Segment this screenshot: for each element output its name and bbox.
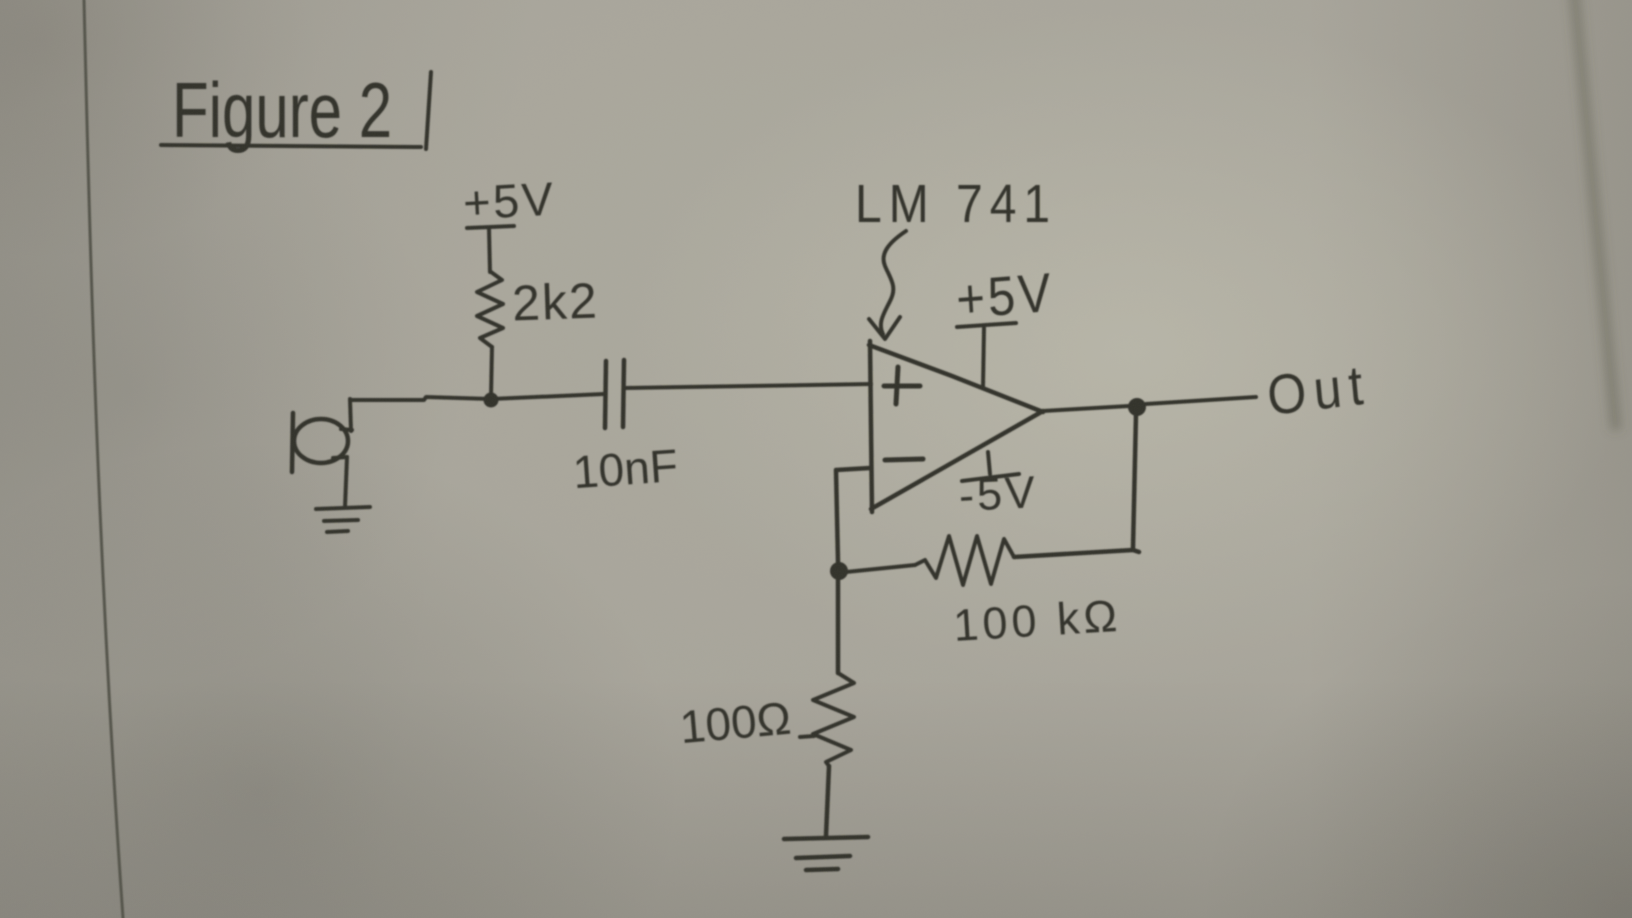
wire: C1 to op-amp + input <box>626 384 871 388</box>
capacitor C1 <box>605 360 624 428</box>
wire: R3 to ground <box>826 766 829 836</box>
paper right-edge shading (top-right corner) <box>1574 0 1616 430</box>
resistor R1 <box>477 272 503 347</box>
wire: node B up to op-amp - input <box>836 468 870 562</box>
node C output junction dot <box>1128 398 1146 416</box>
wire: R1 to node A <box>491 347 492 397</box>
node B junction dot <box>830 562 848 580</box>
wire: mic riser to main wire <box>350 399 351 431</box>
figure caption "Figure 2" <box>161 66 431 153</box>
resistor R2 100k feedback <box>915 536 1014 585</box>
-5V supply (op-amp) <box>958 452 1040 521</box>
wire: mic to ground <box>345 457 347 507</box>
ground (R3) <box>784 837 868 870</box>
+5V supply bar symbol (left) <box>467 226 514 272</box>
wire: R2 to node B <box>846 565 915 572</box>
wire: node C down (feedback vertical) <box>1014 414 1139 557</box>
paper margin rule line <box>84 0 123 918</box>
wire: op-amp output to node C <box>1043 406 1129 411</box>
wire: node A to C1 <box>491 394 604 399</box>
op-amp + input marking <box>884 367 920 404</box>
node A junction dot <box>484 393 499 408</box>
op-amp - input marking <box>885 459 923 460</box>
ground (mic) <box>316 507 370 532</box>
op-amp U1 <box>869 341 1043 512</box>
wire: node B down to R3 <box>836 580 841 673</box>
+5V supply bar to op-amp <box>957 323 1016 387</box>
value label 100 ohm <box>678 692 814 753</box>
wire: mic/node A horizontal <box>350 397 491 400</box>
resistor R3 100 ohm <box>813 673 854 766</box>
electret microphone MIC1 <box>292 413 352 472</box>
arrow from LM741 label to op-amp <box>881 231 906 334</box>
wire: node C to Out terminal <box>1146 397 1256 404</box>
